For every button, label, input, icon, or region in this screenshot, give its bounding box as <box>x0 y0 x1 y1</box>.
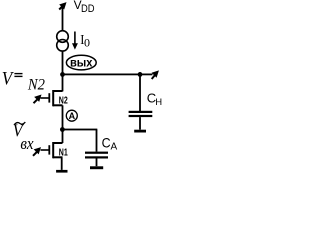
input terminal arrow (N1 gate) <box>33 148 40 156</box>
svg-text:DD: DD <box>81 3 95 15</box>
output terminal arrow <box>152 71 158 79</box>
junction dot (node A wire) <box>60 127 65 132</box>
label V tilde (input voltage) <box>13 121 26 141</box>
label CH <box>147 91 163 108</box>
wire CA lead horizontal <box>62 129 97 131</box>
svg-text:N2: N2 <box>59 96 68 107</box>
transistor N2 <box>41 90 69 107</box>
label V= <box>2 68 23 89</box>
wire CA lead vertical <box>96 130 98 152</box>
current source I0 (two circles) <box>57 31 69 51</box>
svg-text:0: 0 <box>84 36 90 50</box>
svg-text:C: C <box>102 134 111 150</box>
arrow I0 (current direction) <box>72 32 78 50</box>
ground (N1) <box>56 170 67 173</box>
ground (CH) <box>134 130 146 133</box>
wire N2 source down <box>62 105 64 129</box>
label CA <box>102 134 118 152</box>
node A (circle with A) <box>66 110 77 121</box>
svg-text:A: A <box>111 142 118 153</box>
svg-text:вых: вых <box>70 56 93 70</box>
wire N1 source to ground <box>61 157 63 170</box>
label VDD <box>74 0 95 15</box>
wire node A to N1 drain <box>62 130 64 144</box>
junction dot right (CH node) <box>138 72 143 77</box>
svg-text:H: H <box>155 97 162 108</box>
svg-text:N1: N1 <box>59 148 68 159</box>
svg-text:A: A <box>69 111 76 121</box>
wire CH lead <box>139 74 141 111</box>
ground (CA) <box>90 166 103 169</box>
svg-text:V: V <box>2 68 14 89</box>
label I0 <box>80 33 90 49</box>
wire VDD to current source <box>62 8 64 32</box>
input terminal arrow (N2 gate) <box>34 95 41 103</box>
wire current source to output node <box>62 51 64 75</box>
wire output node horizontal <box>63 74 153 76</box>
wire output node to N2 drain <box>62 74 64 91</box>
capacitor CH <box>129 111 153 130</box>
output label ellipse "вых" <box>66 55 96 70</box>
node junction dot (output node) <box>60 72 65 77</box>
power terminal arrow VDD <box>59 3 65 9</box>
capacitor CA <box>85 152 108 167</box>
svg-text:N2: N2 <box>27 77 45 94</box>
svg-text:вх: вх <box>20 134 34 153</box>
transistor N1 <box>41 142 69 159</box>
